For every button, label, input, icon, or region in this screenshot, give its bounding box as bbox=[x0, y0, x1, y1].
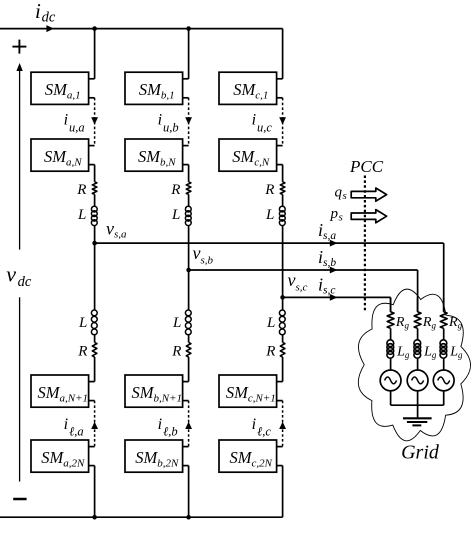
svg-text:L: L bbox=[77, 207, 86, 223]
svg-text:R: R bbox=[76, 182, 86, 198]
svg-text:R: R bbox=[171, 344, 181, 360]
svg-text:R: R bbox=[77, 344, 87, 360]
svg-text:R: R bbox=[265, 344, 275, 360]
svg-text:L: L bbox=[266, 315, 275, 331]
svg-text:L: L bbox=[171, 207, 180, 223]
svg-text:L: L bbox=[172, 315, 181, 331]
svg-text:PCC: PCC bbox=[349, 157, 384, 176]
svg-text:R: R bbox=[264, 182, 274, 198]
svg-text:L: L bbox=[78, 315, 87, 331]
svg-text:L: L bbox=[265, 207, 274, 223]
svg-text:Grid: Grid bbox=[401, 442, 440, 464]
svg-text:R: R bbox=[170, 182, 180, 198]
